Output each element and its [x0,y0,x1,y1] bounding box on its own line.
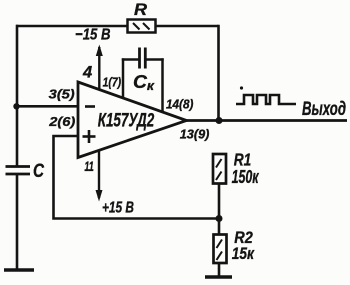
waveform symbol square wave [236,95,296,104]
svg-text:2(6): 2(6) [48,114,75,129]
wire inverting input [16,105,79,108]
svg-text:К157УД2: К157УД2 [98,111,155,132]
svg-text:R: R [134,0,148,19]
svg-text:15к: 15к [232,244,255,263]
wire output [185,119,347,122]
svg-text:14(8): 14(8) [166,96,193,111]
resistor R2 [214,235,227,264]
resistor R1 [213,154,226,184]
ground left [4,268,34,271]
svg-text:1(7): 1(7) [103,75,122,90]
node input junction [13,103,19,109]
wire R1-R2 [218,184,221,235]
svg-text:Выход: Выход [302,99,346,120]
svg-text:13(9): 13(9) [180,127,210,142]
minus input marker [85,105,95,108]
svg-text:−15 В: −15 В [75,27,111,44]
op-amp U1 K157UD2 [78,82,187,158]
pin 11 supply arrow [96,150,103,201]
wire left vertical [16,25,19,167]
ground right [205,275,232,278]
plus input marker [83,130,96,143]
wire R2 to ground [218,263,221,277]
svg-text:3(5): 3(5) [49,86,75,101]
pin 4 supply arrow [96,45,103,91]
wire top horizontal [16,25,219,28]
node output junction [216,117,223,124]
svg-text:4: 4 [82,64,92,82]
svg-text:150к: 150к [232,167,260,187]
svg-text:+15 В: +15 В [102,200,134,217]
svg-text:C: C [33,161,44,182]
node divider junction [216,215,223,222]
wire non-inverting input and bottom run [54,136,220,219]
resistor R [128,20,156,33]
wire right vertical feedback [217,25,220,121]
svg-text:11: 11 [84,158,94,174]
printing speck [240,86,243,89]
capacitor C [6,167,31,271]
capacitor Ck [122,48,164,113]
